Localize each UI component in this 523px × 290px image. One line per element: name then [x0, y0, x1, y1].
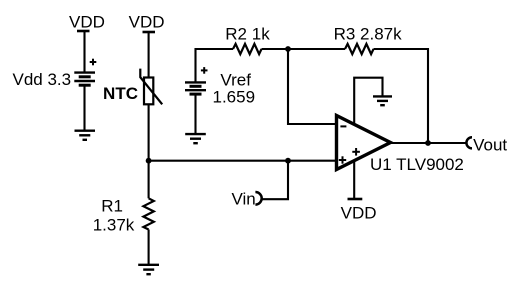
battery V2 Vref [185, 67, 208, 94]
wire battery V1 to ground [83, 85, 85, 131]
wire R3 to output node [374, 49, 429, 143]
wire battery V2 to ground [194, 94, 196, 134]
wire VDD bar to thermistor [148, 32, 150, 78]
svg-text:NTC: NTC [103, 84, 138, 103]
node VDD (supply symbol below op-amp) [341, 199, 377, 222]
wire Vref top corner [196, 49, 234, 82]
ground (op-amp V-) [373, 96, 392, 105]
svg-text:1.37k: 1.37k [93, 216, 135, 235]
op-amp inverting input marker [340, 125, 346, 127]
wire thermistor to node A [148, 104, 150, 160]
wire node B to R3 [288, 48, 345, 50]
svg-text:VDD: VDD [341, 203, 377, 222]
op-amp positive supply marker [352, 148, 360, 156]
svg-text:Vout: Vout [473, 135, 507, 154]
wire R1 to ground [148, 230, 150, 265]
node VDD (supply symbol for V1) [69, 13, 105, 32]
node C (junction +input/Vin) [285, 158, 291, 164]
thermistor RT1 NTC [140, 69, 162, 105]
svg-text:1.659: 1.659 [213, 88, 256, 107]
wire Vin to node C [261, 161, 288, 200]
op-amp U1 triangle [337, 116, 391, 170]
node VDD (supply symbol above NTC) [129, 13, 165, 33]
ground (below V1) [75, 131, 96, 140]
svg-text:R1: R1 [101, 197, 123, 216]
op-amp non-inverting input marker [339, 156, 346, 163]
node B (junction R2/R3/feedback) [285, 46, 291, 52]
wire node A to R1 [148, 161, 150, 199]
wire VDD bar to battery V1 [83, 31, 85, 73]
svg-text:VDD: VDD [129, 13, 165, 32]
wire op-amp output to Vout [391, 142, 467, 144]
node A (junction NTC/R1/+input) [146, 158, 152, 164]
port Vin [255, 192, 261, 205]
svg-text:VDD: VDD [69, 13, 105, 32]
op-amp U1 supply pin to VDD (bottom) [353, 160, 355, 199]
svg-text:R2 1k: R2 1k [225, 24, 270, 43]
svg-text:Vin: Vin [232, 190, 256, 209]
wire node A to non-inverting input [149, 160, 337, 162]
wire feedback node B to inverting input [288, 49, 337, 124]
port Vout [466, 137, 472, 148]
ground (below Vref) [185, 134, 206, 143]
wire R2 to node B [262, 48, 289, 50]
node D (junction output/feedback) [425, 140, 431, 146]
op-amp U1 supply to ground (top) [354, 78, 382, 125]
svg-text:U1 TLV9002: U1 TLV9002 [370, 155, 464, 174]
resistor R1 [143, 198, 153, 229]
svg-text:R3 2.87k: R3 2.87k [334, 25, 403, 44]
svg-text:Vdd 3.3: Vdd 3.3 [13, 70, 72, 89]
label R1 1.37k [93, 197, 135, 235]
resistor R2 [233, 44, 262, 54]
ground (below R1) [138, 265, 159, 274]
resistor R3 [345, 44, 374, 54]
label Vref 1.659 [213, 71, 256, 107]
battery V1 Vdd 3.3 [74, 59, 96, 85]
